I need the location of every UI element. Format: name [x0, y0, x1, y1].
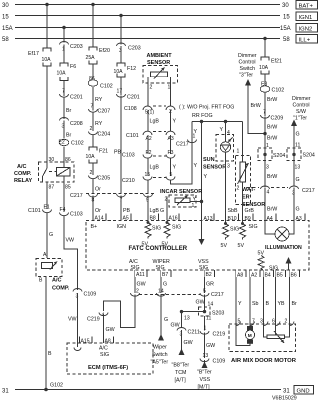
svg-text:C109: C109 — [213, 359, 226, 365]
connector C103 pins F2 / F3 — [122, 150, 175, 159]
connector C204 pin2 — [89, 126, 111, 138]
svg-text:7: 7 — [263, 110, 266, 116]
svg-text:11: 11 — [206, 316, 211, 322]
FATC internal resistor A16 5V — [162, 221, 182, 248]
svg-text:C102: C102 — [100, 84, 113, 90]
node G102 on bus 31 — [44, 388, 48, 392]
svg-text:C205: C205 — [98, 176, 111, 182]
svg-text:B2: B2 — [206, 272, 212, 278]
svg-text:17: 17 — [117, 89, 123, 95]
svg-text:Ef21: Ef21 — [271, 59, 282, 65]
svg-text:10A: 10A — [259, 65, 269, 71]
connector C201 pin7 — [60, 89, 83, 101]
svg-text:RY: RY — [95, 97, 103, 103]
svg-text:Y: Y — [194, 163, 198, 169]
svg-text:A/C: A/C — [17, 164, 27, 170]
A/C COMP. compressor — [36, 252, 70, 292]
svg-text:ILLUMINATION: ILLUMINATION — [265, 245, 302, 251]
svg-text:AIR MIX DOOR MOTOR: AIR MIX DOOR MOTOR — [231, 358, 297, 364]
wire bus30 to fuse Ef17 — [46, 5, 48, 49]
FATC internal VSS SIG label — [198, 259, 209, 271]
svg-text:SUN: SUN — [203, 157, 215, 163]
connector C217 pin9 — [144, 194, 153, 204]
svg-text:C203: C203 — [128, 46, 141, 52]
svg-text:B+: B+ — [91, 224, 98, 230]
svg-text:C102: C102 — [272, 88, 285, 94]
svg-text:A/C: A/C — [99, 346, 108, 352]
node Y-bus to incar — [200, 120, 203, 123]
connector C205 pin2 — [89, 170, 111, 182]
svg-text:SIG: SIG — [172, 225, 181, 231]
INCAR SENSOR — [160, 189, 202, 209]
pin A13 (FATC) — [202, 214, 214, 223]
svg-text:BAT+: BAT+ — [299, 4, 314, 10]
svg-text:15: 15 — [283, 15, 290, 21]
connector C217 long line (bottom) — [139, 292, 224, 298]
svg-text:7: 7 — [62, 89, 65, 95]
svg-text:Y: Y — [220, 127, 224, 133]
svg-text:2: 2 — [237, 186, 240, 192]
Dimmer Control S/W 1 Ter feed — [291, 96, 311, 149]
wire F21 to C205 — [92, 163, 94, 175]
grommet C102 E8 — [260, 82, 284, 94]
svg-text:BrW: BrW — [251, 103, 261, 109]
wire Or to C217-8 — [92, 179, 94, 194]
svg-text:5(1): 5(1) — [145, 110, 154, 116]
svg-text:C103: C103 — [70, 212, 83, 218]
wire water pin1 from Y-bus — [242, 122, 244, 163]
wire G to wiper switch — [160, 295, 162, 337]
svg-text:BrW: BrW — [267, 174, 277, 180]
svg-text:GrB: GrB — [245, 208, 255, 214]
svg-text:A8: A8 — [237, 273, 243, 279]
wire bus30 to fuse Ef20 — [92, 5, 94, 48]
svg-text:GW: GW — [106, 327, 115, 333]
node: junction bus30 to Ef17 — [45, 3, 48, 6]
svg-text:E1: E1 — [44, 205, 50, 211]
svg-text:S204: S204 — [273, 153, 285, 159]
connector C217 pin14 — [157, 289, 166, 297]
wire VW jog to C109 — [64, 216, 78, 290]
svg-text:B9: B9 — [245, 216, 251, 222]
wire GW S203 to C211-3 — [181, 312, 183, 328]
svg-text:4: 4 — [227, 130, 230, 136]
svg-text:B10: B10 — [228, 216, 237, 222]
wire LgB to FATC B8 — [147, 196, 149, 221]
connector C217 pin2 — [131, 289, 140, 297]
bus 31 GND — [2, 386, 314, 400]
svg-text:G: G — [296, 207, 300, 213]
FATC internal WIPER SIG label — [153, 259, 171, 271]
pin A14 (FATC) — [93, 214, 106, 222]
bus 15 IGN1 — [2, 12, 318, 21]
svg-text:Or: Or — [95, 187, 101, 193]
svg-text:Sb: Sb — [252, 301, 259, 307]
svg-text:A8: A8 — [105, 339, 111, 345]
wire GW jog C217-2 to C219-4 — [104, 295, 136, 328]
svg-text:F21: F21 — [99, 149, 108, 155]
svg-text:YB: YB — [278, 301, 286, 307]
svg-text:A2: A2 — [251, 273, 257, 279]
svg-text:Wiper: Wiper — [153, 345, 167, 351]
svg-text:13: 13 — [203, 353, 209, 359]
pin A11 (FATC bottom) — [135, 270, 147, 278]
svg-text:BrW: BrW — [267, 125, 277, 131]
pin B7 (FATC bottom) — [161, 270, 171, 278]
A/C COMP. RELAY — [14, 157, 74, 191]
svg-text:Ef20: Ef20 — [99, 48, 110, 54]
wire Or to FATC A14 — [92, 196, 94, 221]
svg-text:3: 3 — [266, 165, 269, 171]
svg-text:G: G — [296, 177, 300, 183]
svg-text:F4: F4 — [60, 207, 66, 213]
svg-text:30: 30 — [2, 3, 9, 9]
svg-text:"B"Ter: "B"Ter — [197, 370, 212, 376]
wire F12 to C201-17 — [120, 77, 122, 95]
svg-text:SIG: SIG — [230, 227, 239, 233]
svg-text:V6B15029: V6B15029 — [272, 396, 297, 400]
svg-text:4: 4 — [267, 190, 270, 196]
wire Y ambient-1 to C108 — [170, 83, 172, 106]
svg-text:Y: Y — [173, 119, 177, 125]
svg-text:10A: 10A — [42, 57, 52, 63]
svg-text:B7: B7 — [162, 272, 168, 278]
svg-text:Br: Br — [292, 301, 298, 307]
fuse Ef20 25A — [86, 47, 110, 64]
svg-text:PB: PB — [114, 150, 122, 156]
wire C203 to fuse F12 — [120, 46, 122, 63]
svg-text:RELAY: RELAY — [14, 178, 32, 184]
svg-text:86: 86 — [65, 157, 71, 163]
svg-text:2: 2 — [150, 85, 153, 91]
svg-text:COMP.: COMP. — [52, 286, 70, 292]
wire sun pin4 to Y-bus — [225, 122, 227, 142]
svg-text:GW: GW — [206, 343, 215, 349]
svg-text:58: 58 — [2, 37, 9, 43]
svg-text:A13: A13 — [204, 216, 213, 222]
svg-text:30: 30 — [49, 157, 55, 163]
svg-text:2: 2 — [165, 197, 168, 203]
node incar pin1 junction — [200, 200, 203, 203]
fuse F12 10A — [114, 63, 137, 77]
svg-text:14: 14 — [158, 289, 164, 295]
svg-text:2: 2 — [90, 126, 93, 132]
svg-text:[M/T]: [M/T] — [198, 385, 211, 391]
wire G: C101 to A/C COMP pin A — [46, 213, 48, 258]
svg-text:A15: A15 — [81, 339, 90, 345]
svg-text:GW: GW — [196, 300, 205, 306]
wire YB B5 to pot wiper — [275, 277, 277, 326]
svg-text:Or: Or — [95, 208, 101, 214]
svg-text:"1"Ter: "1"Ter — [293, 116, 307, 122]
FATC internal A/C SIG label — [129, 259, 140, 271]
node: junction bus15A to C203-1 — [62, 26, 65, 29]
VSS arrow — [197, 360, 212, 391]
wire GrB water pin2 to B9 — [242, 182, 244, 224]
svg-text:M: M — [248, 333, 252, 339]
connector C217 pin1 — [176, 134, 197, 148]
pin B8 (FATC) — [148, 214, 158, 222]
svg-text:C217: C217 — [70, 193, 83, 199]
fuse F6 10A — [57, 63, 77, 81]
FATC CONTROLLER box — [86, 221, 309, 270]
svg-text:Dimmer: Dimmer — [292, 96, 311, 102]
svg-text:58: 58 — [283, 37, 290, 43]
connector C207 pin7 — [89, 104, 111, 115]
svg-text:C204: C204 — [98, 132, 111, 138]
connector C210 pins 15 / 5 — [122, 172, 175, 184]
svg-text:SIG: SIG — [249, 224, 258, 230]
WATER SENSOR — [236, 149, 266, 209]
svg-text:5V: 5V — [162, 242, 169, 248]
wire LgB C108 to C101-A2 — [147, 110, 149, 131]
wire Ef21 to grommet E8 — [264, 74, 266, 85]
wire PB to FATC A5 — [120, 196, 122, 221]
svg-text:5V: 5V — [221, 243, 228, 249]
wire Y C103 to C210-5 — [170, 158, 172, 176]
svg-text:F12: F12 — [127, 66, 136, 72]
node Y-bus to sun — [224, 120, 227, 123]
svg-text:Control: Control — [239, 60, 256, 66]
svg-text:Ef17: Ef17 — [28, 51, 39, 57]
wire LgB C101 to C103-F2 — [147, 135, 149, 154]
svg-text:A/C: A/C — [52, 278, 62, 284]
svg-text:Dimmer: Dimmer — [238, 53, 257, 59]
wire bus15 to C203-3 — [120, 16, 122, 45]
wire Y C101 to C103-F3 — [170, 135, 172, 154]
svg-text:BrW: BrW — [267, 207, 277, 213]
svg-text:13: 13 — [295, 165, 301, 171]
svg-text:COMP.: COMP. — [14, 171, 32, 177]
svg-text:BrW: BrW — [267, 136, 277, 142]
svg-text:S204: S204 — [303, 153, 315, 159]
svg-text:B5: B5 — [277, 273, 283, 279]
svg-text:2: 2 — [136, 289, 139, 295]
wire RY to C204 — [92, 113, 94, 132]
node BrW merge — [263, 132, 266, 135]
svg-text:15: 15 — [145, 172, 151, 178]
wire Br to C102 E2 — [63, 121, 65, 139]
svg-text:FATC CONTROLLER: FATC CONTROLLER — [129, 246, 188, 252]
node: junction bus15 to C203-3 — [119, 14, 122, 17]
wire BrW C209 to S204 — [264, 117, 266, 149]
wire Br B6 to pot right — [289, 277, 291, 326]
FATC internal resistor B8 5V — [142, 221, 162, 248]
connector C211 pin3 — [177, 328, 200, 338]
svg-text:( ): W/O Proj. FRT FOG: ( ): W/O Proj. FRT FOG — [179, 105, 234, 111]
connector C217 pin3 — [290, 186, 315, 197]
wire BrW S204 to C217-4 — [264, 161, 266, 188]
svg-text:C219: C219 — [213, 332, 226, 338]
wire relay87 to C101 E1 — [46, 182, 48, 209]
wire GW C219-1 to C109-13 — [204, 333, 206, 359]
svg-text:E2: E2 — [59, 140, 65, 146]
svg-text:C209: C209 — [271, 116, 284, 122]
svg-text:A11: A11 — [136, 272, 145, 278]
wire SbB sun pin3 to B10 — [225, 152, 227, 223]
wire GW S203 to C219-1 — [204, 316, 206, 331]
svg-text:C208: C208 — [70, 121, 83, 127]
wire VW to ECM A15 — [77, 293, 79, 343]
wire GR B2 to C217-5 — [204, 277, 206, 293]
svg-text:G: G — [296, 132, 300, 138]
connector C208 pin3 — [60, 118, 83, 130]
wire C203 to fuse F6 — [63, 45, 65, 64]
bus 58 ILL+ — [2, 35, 318, 44]
svg-text:ER: ER — [242, 195, 250, 201]
svg-text:C101: C101 — [28, 208, 41, 214]
svg-text:3: 3 — [227, 164, 230, 170]
svg-text:A: A — [43, 252, 47, 258]
svg-text:1: 1 — [204, 326, 207, 332]
grommet C102 E2 — [59, 139, 84, 146]
svg-text:VW: VW — [68, 317, 77, 323]
svg-text:LgB: LgB — [150, 119, 160, 125]
node: junction bus30 to Ef20 — [91, 3, 94, 6]
pin A15 (ECM) — [80, 337, 93, 345]
pin B6 (FATC bottom) — [289, 270, 299, 279]
fuse Ef17 10A — [28, 48, 51, 66]
svg-text:85: 85 — [65, 185, 71, 191]
connector C217 pin4 — [247, 186, 288, 196]
wire RY to C207 — [92, 87, 94, 111]
svg-text:"B8"Ter: "B8"Ter — [172, 363, 190, 369]
svg-text:B4: B4 — [265, 273, 271, 279]
svg-text:Br: Br — [66, 108, 72, 114]
AMBIENT SENSOR — [143, 53, 178, 91]
svg-text:F3: F3 — [168, 150, 174, 156]
FATC internal SIG arrow to B6 — [286, 257, 292, 270]
svg-text:C207: C207 — [98, 109, 111, 115]
wire G S204 to C217-3 — [293, 161, 295, 187]
wire GW C217-5 to S203 — [204, 295, 206, 312]
wire Ef20 to grommet 86 — [92, 64, 94, 79]
wire GW C211 to TCM — [181, 330, 183, 350]
grommet C102 86 — [88, 76, 113, 90]
svg-text:LgB: LgB — [150, 165, 160, 171]
wire Br to C208 — [63, 98, 65, 120]
TCM arrow — [172, 349, 190, 384]
ECM (ITMS-6F) box — [67, 343, 153, 374]
pin B5 (FATC bottom) — [275, 270, 285, 279]
wire BrW E8 to C209 — [264, 93, 266, 117]
svg-text:SIG: SIG — [156, 265, 165, 271]
pin A5 (FATC) — [121, 214, 131, 222]
bus 15A IGN2 — [2, 24, 318, 33]
svg-text:5: 5 — [170, 172, 173, 178]
svg-text:GW: GW — [184, 340, 193, 346]
svg-text:GW: GW — [171, 323, 180, 329]
svg-text:TCM: TCM — [175, 370, 186, 376]
svg-text:ECM (ITMS-6F): ECM (ITMS-6F) — [88, 365, 128, 371]
svg-text:SIG: SIG — [199, 265, 208, 271]
svg-text:C109: C109 — [84, 292, 97, 298]
svg-text:Y: Y — [204, 174, 208, 180]
svg-text:IGN1: IGN1 — [299, 15, 313, 21]
FATC internal 5V resistor to B4 — [258, 251, 279, 272]
svg-text:30: 30 — [282, 3, 289, 9]
AIR MIX DOOR MOTOR — [229, 322, 297, 365]
connector C101 pins A2 / A3 — [126, 131, 175, 142]
connector C203 pin3 — [117, 43, 141, 54]
wire LgB C210 to C217-9 — [147, 180, 149, 194]
svg-text:GND: GND — [297, 389, 310, 395]
svg-text:S/W: S/W — [296, 109, 306, 115]
svg-text:87: 87 — [49, 185, 55, 191]
pin A8 (FATC bottom) — [236, 270, 246, 279]
connector C209 pin7 — [261, 110, 284, 122]
wire GW C219 to ECM A8 — [103, 314, 105, 343]
svg-text:B: B — [39, 278, 43, 284]
svg-text:C203: C203 — [70, 44, 83, 50]
svg-text:PB: PB — [123, 208, 131, 214]
connector C203 pin1 — [60, 42, 83, 53]
svg-text:5V: 5V — [142, 242, 149, 248]
svg-text:G: G — [164, 317, 168, 323]
svg-text:31: 31 — [283, 389, 290, 395]
Dimmer Control Switch 3 Ter feed — [238, 53, 265, 134]
svg-text:C219: C219 — [87, 317, 100, 323]
FATC internal resistor B9 5V — [238, 222, 258, 249]
connector C108 pins 5(1) / 2 — [124, 106, 175, 116]
pin A2 (FATC bottom) — [250, 270, 260, 279]
svg-text:15A: 15A — [2, 26, 13, 32]
svg-text:C217: C217 — [302, 188, 315, 194]
svg-text:C101: C101 — [126, 133, 139, 139]
svg-text:Br: Br — [66, 133, 72, 139]
svg-text:15: 15 — [2, 15, 9, 21]
wire bus15A to C203 — [63, 28, 65, 43]
connector C219 pin1 — [200, 331, 225, 338]
svg-text:SENSOR: SENSOR — [203, 165, 226, 171]
svg-text:10A: 10A — [86, 154, 96, 160]
svg-text:A4: A4 — [267, 216, 273, 222]
pin A4 (FATC) — [265, 214, 276, 223]
svg-text:C103: C103 — [122, 153, 135, 159]
svg-text:Control: Control — [293, 103, 310, 109]
svg-text:[A/T]: [A/T] — [175, 378, 187, 384]
FATC internal illumination lamp — [265, 221, 302, 251]
svg-text:10A: 10A — [114, 69, 124, 75]
wire G to FATC A3 — [293, 188, 295, 221]
wire Y C108 to C101-A3 — [170, 110, 172, 131]
svg-text:B6: B6 — [291, 273, 297, 279]
SUN SENSOR — [203, 130, 234, 171]
svg-text:Switch: Switch — [240, 66, 256, 72]
connector C103 F4 — [60, 207, 83, 218]
svg-text:C211: C211 — [188, 330, 200, 336]
svg-text:RY: RY — [95, 121, 103, 127]
svg-text:VSS: VSS — [200, 377, 211, 383]
wire Y-bus horizontal — [192, 121, 243, 123]
svg-text:F6: F6 — [70, 64, 76, 70]
connector C219 pin4 — [87, 313, 108, 323]
pin B9 (FATC) — [243, 214, 253, 223]
svg-text:5V: 5V — [238, 243, 245, 249]
pin A8 (ECM) — [104, 337, 114, 345]
svg-text:G102: G102 — [50, 383, 63, 389]
svg-text:10A: 10A — [57, 71, 67, 77]
fuse F21 10A — [86, 147, 109, 163]
svg-text:"A5"Ter: "A5"Ter — [151, 360, 169, 366]
svg-text:1: 1 — [193, 134, 196, 140]
svg-text:S203: S203 — [212, 311, 224, 317]
connector C217 pin7 — [117, 194, 126, 204]
wire C204 to fuse F21 — [92, 135, 94, 147]
wire E2 to relay pin86 — [63, 147, 65, 163]
svg-text:F2: F2 — [146, 150, 152, 156]
svg-text:IGN2: IGN2 — [299, 27, 313, 33]
